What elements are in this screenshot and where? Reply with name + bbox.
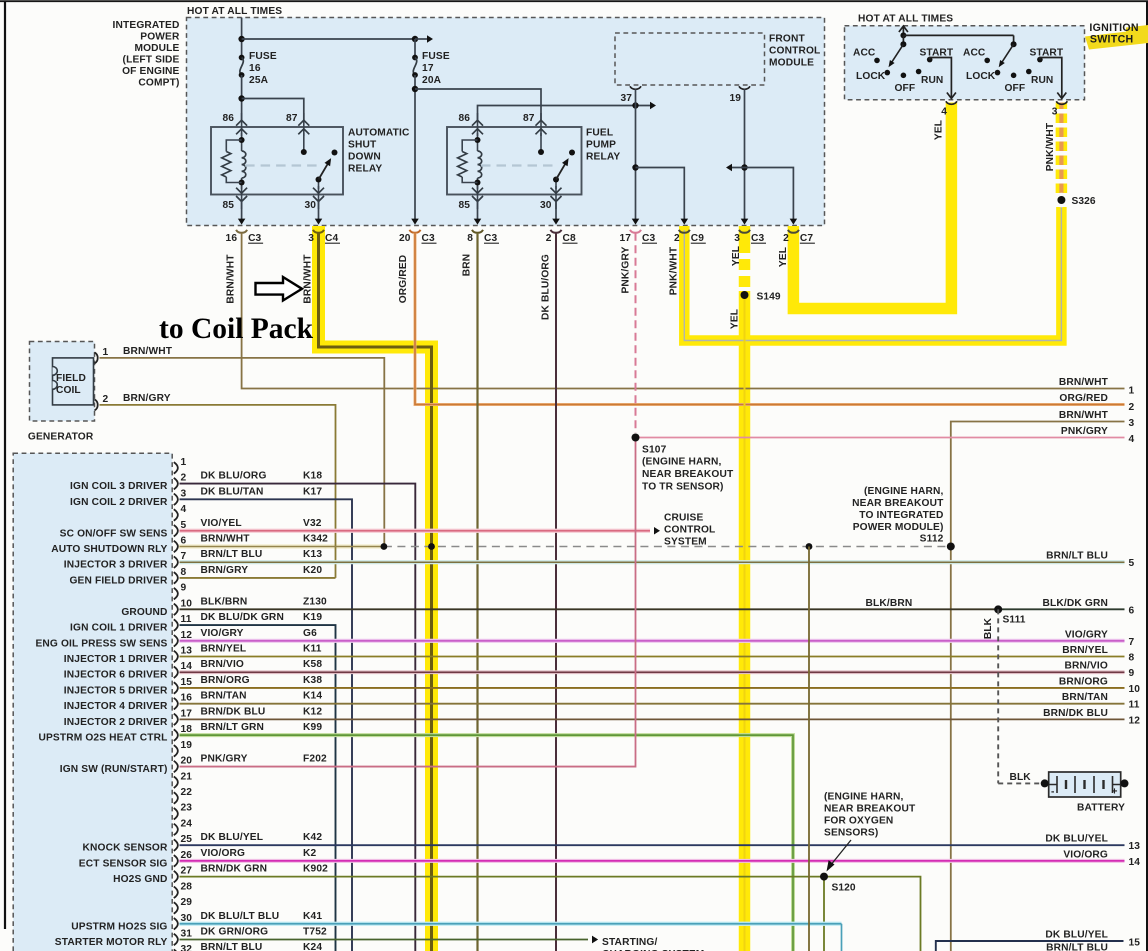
PCM pin 1 connector bbox=[174, 457, 187, 474]
wire pin2 DK BLU/ORG down to bottom bbox=[180, 484, 416, 951]
splice S107 bbox=[632, 434, 640, 442]
svg-text:STARTER MOTOR RLY: STARTER MOTOR RLY bbox=[55, 937, 168, 948]
svg-text:TO TR SENSOR): TO TR SENSOR) bbox=[642, 482, 724, 493]
svg-text:VIO/GRY: VIO/GRY bbox=[1065, 629, 1108, 640]
generator field coil bbox=[53, 358, 94, 405]
wire YEL core on long vertical bbox=[744, 295, 746, 951]
svg-text:K38: K38 bbox=[303, 675, 322, 686]
PCM pin 20 connector bbox=[174, 754, 327, 773]
svg-text:87: 87 bbox=[523, 113, 535, 124]
svg-text:YEL: YEL bbox=[934, 120, 945, 140]
PCM pin 16 connector bbox=[174, 691, 323, 710]
wire: ASD 30 down to connector 3-C4 bbox=[318, 201, 320, 220]
PCM pin 18 connector bbox=[174, 722, 323, 741]
wire pin31 DK GRN/ORG to starting/charging arrow bbox=[180, 938, 589, 940]
wire: feed across both switch wafers bbox=[903, 34, 1013, 36]
wire: fuse17 branch arrow at IPM bottom (20-C3) bbox=[411, 219, 419, 225]
svg-text:S112: S112 bbox=[920, 534, 944, 545]
svg-text:12: 12 bbox=[1129, 715, 1141, 726]
svg-text:INJECTOR 4 DRIVER: INJECTOR 4 DRIVER bbox=[64, 701, 168, 712]
node: hot feed junction at fuse 16 top bbox=[241, 18, 243, 58]
FCM pin 19 connector bbox=[739, 86, 750, 89]
connector 8-C3 bbox=[467, 230, 499, 244]
svg-text:8: 8 bbox=[467, 233, 473, 244]
svg-text:HOT AT ALL TIMES: HOT AT ALL TIMES bbox=[858, 14, 953, 25]
svg-text:INJECTOR 6 DRIVER: INJECTOR 6 DRIVER bbox=[64, 670, 168, 681]
svg-text:31: 31 bbox=[181, 928, 193, 939]
svg-text:2: 2 bbox=[674, 233, 680, 244]
ignition switch dashed box bbox=[845, 26, 1085, 100]
wire riser from K342 dashed line down at x809 bbox=[808, 546, 810, 951]
svg-text:(ENGINE HARN,: (ENGINE HARN, bbox=[824, 792, 904, 803]
svg-text:YEL: YEL bbox=[731, 246, 742, 266]
svg-text:to Coil Pack: to Coil Pack bbox=[159, 313, 314, 345]
svg-text:K42: K42 bbox=[303, 832, 322, 843]
svg-text:YEL: YEL bbox=[778, 247, 789, 267]
svg-text:RELAY: RELAY bbox=[586, 152, 620, 163]
highlight band: BRN/WHT to coil pack (C4) bbox=[319, 226, 432, 951]
svg-text:FRONT: FRONT bbox=[769, 34, 805, 45]
svg-text:INJECTOR 2 DRIVER: INJECTOR 2 DRIVER bbox=[64, 717, 168, 728]
svg-text:VIO/YEL: VIO/YEL bbox=[201, 518, 242, 529]
svg-text:BRN/WHT: BRN/WHT bbox=[123, 346, 173, 357]
wire PNK/WHT orange dashes S326 to ignition pin3 bbox=[1059, 103, 1063, 194]
svg-text:K24: K24 bbox=[303, 942, 322, 951]
PCM pin 21 connector bbox=[174, 771, 192, 788]
wire: wafer1 START to pin 4 bbox=[930, 58, 952, 99]
svg-text:17: 17 bbox=[619, 233, 631, 244]
svg-text:K20: K20 bbox=[303, 565, 322, 576]
FCM pin 37 connector bbox=[630, 86, 641, 89]
svg-text:FUSE: FUSE bbox=[249, 51, 277, 62]
highlight band: PNK/WHT C9 to S326 to ignition pin3 bbox=[684, 207, 1061, 341]
svg-text:BRN/DK BLU: BRN/DK BLU bbox=[201, 706, 266, 717]
svg-text:9: 9 bbox=[181, 583, 187, 594]
svg-text:24: 24 bbox=[181, 818, 193, 829]
svg-text:3: 3 bbox=[308, 233, 314, 244]
svg-text:BRN/VIO: BRN/VIO bbox=[201, 659, 245, 670]
wire DK BLU/YEL line 15 bbox=[936, 941, 1124, 951]
PCM pin 30 connector bbox=[174, 911, 323, 930]
svg-text:IGN COIL 3 DRIVER: IGN COIL 3 DRIVER bbox=[70, 481, 168, 492]
svg-text:DK GRN/ORG: DK GRN/ORG bbox=[201, 926, 269, 937]
svg-text:PNK/WHT: PNK/WHT bbox=[668, 246, 679, 295]
svg-text:BRN/WHT: BRN/WHT bbox=[303, 254, 314, 304]
svg-text:KNOCK SENSOR: KNOCK SENSOR bbox=[82, 843, 167, 854]
wire pin8 BRN/GRY up to generator (drawn with generator) bbox=[180, 577, 336, 579]
svg-text:S107: S107 bbox=[642, 445, 667, 456]
svg-text:GENERATOR: GENERATOR bbox=[28, 432, 94, 443]
svg-text:85: 85 bbox=[222, 200, 234, 211]
svg-text:K58: K58 bbox=[303, 659, 322, 670]
wire: FP relay 85 down to connector 8-C3 bbox=[477, 201, 479, 220]
connector 16-C3 bbox=[226, 230, 264, 244]
svg-text:10: 10 bbox=[181, 598, 193, 609]
PCM pin 11 connector bbox=[174, 612, 323, 631]
wire pin18 BRN/LT GRN down right side bbox=[180, 735, 794, 951]
PCM pin 28 connector bbox=[174, 881, 192, 898]
svg-text:MODULE: MODULE bbox=[134, 43, 179, 54]
svg-text:ORG/RED: ORG/RED bbox=[1059, 393, 1108, 404]
PCM pin 29 connector bbox=[174, 897, 192, 914]
fuse F17 20A bbox=[414, 39, 416, 58]
connector 2-C8 bbox=[546, 230, 578, 244]
wire pin26 VIO/ORG line 14 bbox=[180, 859, 1125, 863]
PCM pin 19 connector bbox=[174, 740, 192, 757]
svg-text:START: START bbox=[1030, 48, 1064, 59]
svg-text:START: START bbox=[920, 48, 954, 59]
svg-text:SWITCH: SWITCH bbox=[1090, 34, 1134, 46]
svg-text:FUSE: FUSE bbox=[422, 51, 450, 62]
svg-text:SENSORS): SENSORS) bbox=[824, 828, 878, 839]
PCM pin 32 connector bbox=[174, 942, 323, 951]
connector 2-C7 bbox=[783, 230, 815, 244]
svg-text:LOCK: LOCK bbox=[966, 71, 996, 82]
svg-text:AUTO SHUTDOWN RLY: AUTO SHUTDOWN RLY bbox=[51, 544, 167, 555]
svg-text:BRN/ORG: BRN/ORG bbox=[1059, 676, 1108, 687]
svg-text:TO INTEGRATED: TO INTEGRATED bbox=[859, 510, 943, 521]
svg-text:UPSTRM O2S HEAT CTRL: UPSTRM O2S HEAT CTRL bbox=[38, 733, 167, 744]
svg-text:19: 19 bbox=[181, 740, 193, 751]
wire BRN/GRY generator pin2 to PCM pin 8 bbox=[100, 405, 336, 578]
svg-text:3: 3 bbox=[181, 488, 187, 499]
svg-text:6: 6 bbox=[1129, 605, 1135, 616]
wire: branch from pin37 wire to connector 2-C9 bbox=[636, 168, 685, 221]
svg-text:10: 10 bbox=[1129, 684, 1141, 695]
svg-text:DK BLU/DK GRN: DK BLU/DK GRN bbox=[201, 612, 284, 623]
svg-text:3: 3 bbox=[1129, 418, 1135, 429]
svg-text:ORG/RED: ORG/RED bbox=[398, 255, 409, 304]
svg-text:ENG OIL PRESS SW SENS: ENG OIL PRESS SW SENS bbox=[35, 638, 167, 649]
svg-text:INTEGRATED: INTEGRATED bbox=[113, 20, 180, 31]
wire pin15 BRN/ORG line 10 bbox=[180, 687, 1125, 689]
svg-text:BRN/WHT: BRN/WHT bbox=[201, 533, 251, 544]
svg-text:6: 6 bbox=[181, 535, 187, 546]
PCM pin 6 connector bbox=[174, 533, 328, 552]
svg-text:HOT AT ALL TIMES: HOT AT ALL TIMES bbox=[187, 6, 282, 17]
svg-text:22: 22 bbox=[181, 787, 193, 798]
svg-text:RUN: RUN bbox=[1031, 75, 1053, 86]
wire: feed across to fuse 17 with arrow bbox=[242, 38, 415, 40]
svg-text:2: 2 bbox=[103, 394, 109, 405]
splice S326 bbox=[1054, 193, 1068, 207]
svg-text:K14: K14 bbox=[303, 691, 322, 702]
svg-text:K17: K17 bbox=[303, 486, 322, 497]
svg-text:GEN FIELD DRIVER: GEN FIELD DRIVER bbox=[69, 575, 168, 586]
svg-text:OF ENGINE: OF ENGINE bbox=[122, 66, 179, 77]
wire: FCM pin 37 down to connector 17-C3 bbox=[635, 89, 637, 220]
svg-text:K11: K11 bbox=[303, 644, 322, 655]
highlight band: YEL ignition pin4 to C7 bbox=[793, 103, 951, 309]
svg-text:C7: C7 bbox=[800, 233, 813, 244]
svg-text:DK BLU/YEL: DK BLU/YEL bbox=[1045, 930, 1108, 941]
wire PNK/GRY line 4 from S107 bbox=[636, 437, 1125, 439]
svg-text:30: 30 bbox=[304, 200, 316, 211]
svg-text:86: 86 bbox=[458, 113, 470, 124]
wire: fuse16 out to ASD relay terminals 86/87 bbox=[241, 75, 243, 120]
svg-text:ACC: ACC bbox=[963, 48, 986, 59]
svg-text:25: 25 bbox=[181, 834, 193, 845]
svg-text:S120: S120 bbox=[832, 883, 856, 894]
svg-text:DK BLU/YEL: DK BLU/YEL bbox=[201, 832, 264, 843]
svg-text:15: 15 bbox=[1129, 938, 1141, 949]
front control module dashed box bbox=[615, 33, 765, 85]
svg-text:9: 9 bbox=[1129, 668, 1135, 679]
svg-text:FUEL: FUEL bbox=[586, 128, 613, 139]
svg-text:1: 1 bbox=[181, 457, 187, 468]
wire BLK dashed S111 to battery bbox=[997, 609, 999, 783]
ignition switch wafer 1 bbox=[874, 41, 932, 78]
svg-text:C3: C3 bbox=[248, 233, 261, 244]
svg-text:4: 4 bbox=[181, 504, 187, 515]
svg-text:VIO/ORG: VIO/ORG bbox=[1063, 849, 1108, 860]
svg-text:NEAR BREAKOUT: NEAR BREAKOUT bbox=[852, 498, 944, 509]
PCM pin 9 connector bbox=[174, 583, 187, 600]
svg-text:K12: K12 bbox=[303, 706, 322, 717]
svg-text:1: 1 bbox=[103, 347, 109, 358]
svg-text:DK BLU/ORG: DK BLU/ORG bbox=[201, 471, 267, 482]
connector 17-C3 bbox=[619, 230, 657, 244]
PCM pin 25 connector bbox=[174, 832, 323, 851]
svg-text:(ENGINE HARN,: (ENGINE HARN, bbox=[642, 457, 722, 468]
svg-text:16: 16 bbox=[226, 233, 238, 244]
relay K-FP fuel pump relay bbox=[447, 113, 582, 209]
wire: cross link with left arrow and down to connector 2-C7 bbox=[732, 168, 793, 221]
svg-text:CRUISE: CRUISE bbox=[664, 513, 703, 524]
wire pin6 BRN/WHT K342 solid part bbox=[180, 545, 384, 547]
svg-text:Z130: Z130 bbox=[303, 596, 327, 607]
svg-text:4: 4 bbox=[941, 107, 947, 118]
annotation: block arrow pointing right bbox=[256, 277, 303, 301]
connector 2-C9 bbox=[674, 230, 706, 244]
svg-text:2: 2 bbox=[783, 233, 789, 244]
wire pin30 DK BLU/LT BLU down at right bbox=[180, 922, 842, 926]
svg-text:K342: K342 bbox=[303, 533, 328, 544]
svg-text:7: 7 bbox=[1129, 637, 1135, 648]
PCM pin 3 connector bbox=[174, 486, 323, 505]
svg-text:BRN/ORG: BRN/ORG bbox=[201, 675, 250, 686]
svg-text:LOCK: LOCK bbox=[856, 71, 886, 82]
svg-text:SC ON/OFF SW SENS: SC ON/OFF SW SENS bbox=[60, 528, 168, 539]
svg-text:BRN/TAN: BRN/TAN bbox=[1062, 692, 1108, 703]
svg-text:RUN: RUN bbox=[921, 75, 943, 86]
fuse F16 25A bbox=[239, 55, 245, 61]
wire pin20 PNK/GRY up to S107 bbox=[180, 438, 636, 767]
generator pin 2 connector bbox=[95, 399, 98, 410]
svg-text:C9: C9 bbox=[691, 233, 704, 244]
svg-text:BRN/GRY: BRN/GRY bbox=[201, 565, 249, 576]
wire pin16 BRN/TAN line 11 bbox=[180, 703, 1125, 705]
svg-text:(LEFT SIDE: (LEFT SIDE bbox=[123, 55, 180, 66]
wire: wafer2 START to pin 3 bbox=[1040, 58, 1062, 99]
svg-text:OFF: OFF bbox=[1005, 83, 1026, 94]
PCM pin 24 connector bbox=[174, 818, 192, 835]
scan border left edge bbox=[4, 2, 6, 929]
svg-text:YEL: YEL bbox=[730, 309, 741, 329]
svg-text:COMPT): COMPT) bbox=[138, 78, 179, 89]
svg-text:C3: C3 bbox=[642, 233, 655, 244]
wire pin10 BLK/BRN to S111 bbox=[180, 608, 999, 610]
svg-text:CONTROL: CONTROL bbox=[769, 46, 820, 57]
splice S120 bbox=[820, 873, 828, 881]
PCM pin 4 connector bbox=[174, 504, 187, 521]
generator pin 1 connector bbox=[95, 352, 98, 363]
highlight band: YEL C3 pin3 dashes above S149 bbox=[739, 226, 751, 291]
svg-text:3: 3 bbox=[1052, 107, 1058, 118]
svg-text:G6: G6 bbox=[303, 628, 317, 639]
svg-text:BRN/VIO: BRN/VIO bbox=[1064, 661, 1108, 672]
svg-text:AUTOMATIC: AUTOMATIC bbox=[348, 128, 410, 139]
svg-text:DK BLU/LT BLU: DK BLU/LT BLU bbox=[201, 911, 280, 922]
svg-text:BRN/LT BLU: BRN/LT BLU bbox=[1046, 551, 1108, 562]
svg-text:S111: S111 bbox=[1003, 614, 1026, 625]
ignition switch wafer 2 bbox=[984, 41, 1042, 78]
wire pin14 BRN/VIO line 9 bbox=[180, 670, 1125, 674]
svg-text:K13: K13 bbox=[303, 549, 322, 560]
wire PNK/WHT core C9 to S326 bbox=[684, 204, 1061, 341]
PCM pin 22 connector bbox=[174, 787, 192, 804]
svg-text:BLK/DK GRN: BLK/DK GRN bbox=[1043, 598, 1108, 609]
svg-text:-: - bbox=[1051, 787, 1055, 798]
svg-text:PUMP: PUMP bbox=[586, 140, 616, 151]
svg-text:BRN/TAN: BRN/TAN bbox=[201, 691, 247, 702]
svg-text:BRN/LT BLU: BRN/LT BLU bbox=[1046, 943, 1108, 951]
svg-text:T752: T752 bbox=[303, 926, 327, 937]
svg-text:ACC: ACC bbox=[853, 48, 876, 59]
svg-text:BLK/BRN: BLK/BRN bbox=[201, 596, 248, 607]
wire: fuse17 out, down to connector 20-C3 and branch to fuel pump relay 87 bbox=[414, 75, 416, 222]
svg-text:INJECTOR 1 DRIVER: INJECTOR 1 DRIVER bbox=[64, 654, 168, 665]
svg-text:BRN/DK BLU: BRN/DK BLU bbox=[1043, 708, 1108, 719]
svg-text:DK BLU/TAN: DK BLU/TAN bbox=[201, 486, 264, 497]
wire pin3 DK BLU/TAN down to bottom bbox=[180, 499, 353, 951]
svg-text:17: 17 bbox=[181, 708, 193, 719]
svg-text:32: 32 bbox=[181, 944, 193, 951]
connector 3-C4 bbox=[308, 230, 340, 244]
svg-text:COIL: COIL bbox=[56, 385, 81, 396]
svg-text:37: 37 bbox=[620, 93, 632, 104]
svg-text:17: 17 bbox=[422, 63, 434, 74]
scan border top edge bbox=[0, 0, 1148, 2]
svg-text:INJECTOR 3 DRIVER: INJECTOR 3 DRIVER bbox=[64, 560, 168, 571]
wire BLK/DK GRN line 6 right of S111 bbox=[998, 608, 1124, 610]
svg-text:PNK/GRY: PNK/GRY bbox=[620, 246, 631, 293]
svg-text:V32: V32 bbox=[303, 518, 322, 529]
svg-text:STARTING/: STARTING/ bbox=[602, 937, 658, 948]
svg-text:DOWN: DOWN bbox=[348, 152, 381, 163]
svg-text:VIO/GRY: VIO/GRY bbox=[201, 628, 244, 639]
PCM pin 2 connector bbox=[174, 471, 323, 490]
generator dashed box bbox=[30, 342, 95, 422]
PCM pin 17 connector bbox=[174, 706, 323, 725]
splice S149 bbox=[741, 291, 749, 299]
wire: FCM pin 19 down to connector 3-C3 bbox=[744, 89, 746, 220]
wire: FP relay 86 up and across to FCM pin 37 wire, arrow bbox=[478, 106, 651, 121]
svg-text:29: 29 bbox=[181, 897, 193, 908]
wire pin13 BRN/YEL line 8 bbox=[180, 656, 1125, 658]
wire ORG/RED from 20-C3 down and right to edge (line 2) bbox=[415, 233, 1125, 405]
wire DK BLU/ORG from 2-C8 down to bottom bbox=[555, 233, 557, 951]
svg-text:POWER: POWER bbox=[140, 32, 180, 43]
splice S112 dot bbox=[947, 542, 955, 550]
svg-text:85: 85 bbox=[458, 200, 470, 211]
svg-text:OFF: OFF bbox=[895, 83, 916, 94]
PCM pin 12 connector bbox=[174, 628, 317, 647]
wire BRN/WHT core to coil pack (on yellow band) bbox=[319, 233, 432, 951]
svg-text:UPSTRM HO2S SIG: UPSTRM HO2S SIG bbox=[71, 921, 167, 932]
svg-text:IGN SW (RUN/START): IGN SW (RUN/START) bbox=[60, 764, 168, 775]
wire pin11 DK BLU/DK GRN down to bottom bbox=[180, 625, 336, 951]
svg-text:20: 20 bbox=[181, 756, 193, 767]
wire pin12 VIO/GRY line 7 bbox=[180, 639, 1125, 643]
svg-text:NEAR BREAKOUT: NEAR BREAKOUT bbox=[824, 804, 916, 815]
svg-text:S149: S149 bbox=[757, 292, 781, 303]
svg-text:11: 11 bbox=[1129, 700, 1140, 711]
integrated power module U-IPM dashed box bbox=[187, 18, 825, 226]
svg-text:BATTERY: BATTERY bbox=[1077, 803, 1125, 814]
svg-text:11: 11 bbox=[181, 614, 192, 625]
wire PNK/GRY dashed from 17-C3 down to splice S107 bbox=[635, 233, 637, 433]
svg-text:28: 28 bbox=[181, 881, 193, 892]
svg-text:DK BLU/YEL: DK BLU/YEL bbox=[1045, 834, 1108, 845]
svg-text:ECT SENSOR SIG: ECT SENSOR SIG bbox=[79, 858, 168, 869]
wire pin7 BRN/LT BLU line 5 bbox=[180, 560, 1125, 564]
svg-text:K18: K18 bbox=[303, 471, 322, 482]
svg-text:27: 27 bbox=[181, 866, 193, 877]
svg-text:20: 20 bbox=[399, 233, 411, 244]
svg-text:PNK/GRY: PNK/GRY bbox=[1061, 426, 1108, 437]
svg-text:BRN/WHT: BRN/WHT bbox=[1059, 377, 1109, 388]
svg-text:25A: 25A bbox=[249, 75, 269, 86]
svg-text:VIO/ORG: VIO/ORG bbox=[201, 848, 246, 859]
svg-text:5: 5 bbox=[1129, 558, 1135, 569]
svg-text:GROUND: GROUND bbox=[121, 607, 167, 618]
svg-text:FIELD: FIELD bbox=[56, 373, 86, 384]
svg-text:8: 8 bbox=[1129, 653, 1135, 664]
svg-text:POWER MODULE): POWER MODULE) bbox=[853, 522, 944, 533]
svg-text:BRN/LT BLU: BRN/LT BLU bbox=[201, 549, 263, 560]
svg-text:20A: 20A bbox=[422, 75, 442, 86]
svg-text:INJECTOR 5 DRIVER: INJECTOR 5 DRIVER bbox=[64, 685, 168, 696]
wire pin27 BRN/DK GRN to S120 and down bbox=[180, 877, 921, 951]
svg-text:C3: C3 bbox=[751, 233, 764, 244]
svg-text:23: 23 bbox=[181, 803, 193, 814]
svg-text:S326: S326 bbox=[1072, 196, 1096, 207]
svg-text:14: 14 bbox=[1129, 857, 1141, 868]
battery B1 bbox=[1041, 772, 1129, 798]
PCM pin 7 connector bbox=[174, 549, 323, 568]
svg-text:BRN/GRY: BRN/GRY bbox=[123, 393, 171, 404]
svg-text:K41: K41 bbox=[303, 911, 322, 922]
PCM pin 10 connector bbox=[174, 596, 327, 615]
svg-text:IGNITION: IGNITION bbox=[1089, 22, 1138, 34]
svg-text:15: 15 bbox=[181, 677, 193, 688]
svg-text:K2: K2 bbox=[303, 848, 317, 859]
PCM pin 26 connector bbox=[174, 848, 317, 867]
PCM pin 23 connector bbox=[174, 803, 192, 820]
svg-text:NEAR BREAKOUT: NEAR BREAKOUT bbox=[642, 469, 734, 480]
ignition switch pin 4 connector bbox=[946, 101, 957, 104]
svg-text:K19: K19 bbox=[303, 612, 322, 623]
wire BRN from 8-C3 down to bottom bbox=[476, 233, 478, 951]
wire pin25 DK BLU/YEL line 13 bbox=[180, 844, 1125, 846]
svg-text:C3: C3 bbox=[422, 233, 435, 244]
svg-text:19: 19 bbox=[729, 93, 741, 104]
wire BRN/WHT generator pin1 down to K342 splice bbox=[100, 358, 385, 547]
svg-text:+: + bbox=[1112, 787, 1118, 798]
svg-text:C3: C3 bbox=[484, 233, 497, 244]
wire BRN/WHT line 3 from S112 riser bbox=[951, 422, 1125, 951]
